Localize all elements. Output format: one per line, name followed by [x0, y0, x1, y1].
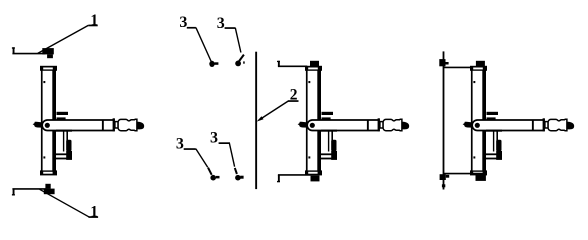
- post top cap (view 1): [40, 66, 57, 71]
- pivot pin (view 1): [45, 123, 50, 128]
- post top cap (view 2): [305, 66, 322, 71]
- screw 3 shank stub (bottom right): [240, 176, 243, 179]
- screw 3 shank stub (bottom left): [216, 176, 220, 179]
- clamp lever (view 1): [33, 122, 43, 128]
- lock shelf upper bar (view 1): [56, 153, 71, 155]
- arm collar lower bar (view 2): [322, 117, 331, 119]
- bottom bracket rail (view 3): [444, 173, 487, 175]
- pivot pin (view 3): [475, 123, 480, 128]
- numeral 1 underline (bottom): [89, 216, 99, 218]
- arm sleeve joint line (view 2): [367, 120, 369, 131]
- turned grip handle (view 2): [383, 119, 402, 131]
- bottom bracket hook (view 1): [13, 189, 15, 196]
- grip end knob (view 3): [567, 122, 574, 130]
- leader line to screw 3 (bottom left): [196, 149, 208, 167]
- lock housing right line (view 1): [66, 131, 68, 152]
- bottom bracket hook tick (view 2): [277, 181, 280, 182]
- swing arm tube (view 2): [307, 120, 379, 131]
- lock foot (view 1): [66, 151, 72, 160]
- post bottom cap (view 2): [305, 170, 322, 175]
- bottom bracket clamp block under cap (view 3): [476, 175, 486, 181]
- post left wall (view 3): [471, 70, 473, 171]
- numeral 3 underline (bottom left): [184, 148, 196, 150]
- screw 3 shank (bottom right): [235, 168, 237, 174]
- arm collar lower bar (view 1): [57, 117, 66, 119]
- wall clamp screw tail (view 3): [442, 184, 445, 187]
- grip neck (view 2): [380, 122, 383, 128]
- lock housing left line (view 2): [328, 131, 329, 152]
- arm collar upper bar (view 1): [57, 112, 69, 115]
- grip end knob (view 2): [402, 122, 409, 130]
- top bracket clamp block (view 1): [42, 48, 54, 54]
- grip neck (view 3): [545, 122, 548, 128]
- post screw hole upper (view 2): [308, 81, 310, 83]
- svg-text:3: 3: [179, 14, 187, 31]
- post right channel bar (view 3): [482, 70, 486, 171]
- svg-text:3: 3: [176, 136, 184, 153]
- screw 3 head (bottom right): [235, 175, 241, 181]
- bottom bracket hook (view 2): [278, 175, 280, 182]
- post screw hole lower (view 2): [308, 156, 310, 158]
- top bracket rail (view 1): [12, 53, 45, 55]
- lock knob (view 1): [66, 140, 71, 151]
- grip neck (view 1): [115, 122, 118, 128]
- numeral 2 underline (wall): [288, 100, 299, 102]
- swing arm tube (view 1): [42, 120, 114, 131]
- screw 3 head (top right): [235, 61, 241, 67]
- bottom bracket clamp block under cap (view 2): [311, 176, 320, 182]
- arm end flange (view 3): [543, 118, 545, 131]
- bottom bracket rail (view 2): [278, 174, 320, 176]
- arm sleeve joint line (view 3): [532, 120, 534, 131]
- numeral 1 underline (top): [88, 25, 97, 27]
- arm end flange (view 2): [378, 118, 380, 131]
- lock shelf lower bar (view 1): [56, 158, 71, 160]
- top bracket clamp block on cap (view 2): [310, 61, 319, 66]
- lock housing top band (view 3): [486, 130, 502, 132]
- lock shelf upper bar (view 2): [321, 153, 336, 155]
- screw 3 tip (top right): [243, 61, 245, 63]
- lock foot (view 2): [331, 151, 337, 160]
- clamp lever (view 3): [463, 122, 473, 128]
- top bracket rail (view 3): [444, 66, 473, 68]
- arm collar upper bar (view 3): [487, 112, 499, 115]
- lock housing left line (view 1): [63, 131, 64, 152]
- svg-text:1: 1: [90, 12, 98, 29]
- turned grip handle (view 3): [548, 119, 567, 131]
- post right channel bar (view 1): [52, 70, 56, 171]
- svg-text:3: 3: [217, 15, 225, 32]
- arrowhead on wall leader: [257, 116, 264, 121]
- leader line to screw 3 (bottom right): [229, 142, 234, 166]
- arm end flange (view 1): [113, 118, 115, 131]
- post top cap (view 3): [470, 66, 487, 71]
- numeral 3 underline (top right): [225, 27, 236, 29]
- bottom bracket rail (view 1): [12, 188, 46, 190]
- svg-text:3: 3: [210, 130, 218, 147]
- arm sleeve joint line (view 1): [102, 120, 104, 131]
- arm collar upper bar (view 2): [322, 112, 334, 115]
- leader line to numeral 1 (bottom): [40, 189, 89, 217]
- numeral 3 underline (bottom right): [219, 142, 230, 144]
- swing arm tube (view 3): [472, 120, 544, 131]
- leader line to wall (numeral 2): [259, 101, 288, 120]
- screw 3 shank stroke (top right): [239, 55, 244, 62]
- lock housing left line (view 3): [493, 131, 494, 152]
- turned grip handle (view 1): [118, 119, 137, 131]
- lock shelf upper bar (view 3): [486, 153, 501, 155]
- post left wall (view 2): [306, 70, 308, 171]
- lock housing right line (view 3): [496, 131, 498, 152]
- screw 3 head (bottom left): [210, 175, 216, 181]
- leader line to numeral 1 (top): [38, 25, 89, 53]
- top bracket hook tick (view 1): [12, 47, 15, 48]
- top bracket hook (view 1): [13, 47, 15, 54]
- post bottom cap (view 3): [470, 170, 487, 175]
- numeral 3 underline (top left): [187, 27, 196, 29]
- wall panel 2: [255, 52, 257, 189]
- lock knob (view 2): [331, 140, 336, 151]
- lock housing right line (view 2): [331, 131, 333, 152]
- leader line to screw 3 (top right): [235, 28, 241, 53]
- top bracket clamp block on cap (view 3): [476, 61, 485, 66]
- lock housing top band (view 2): [321, 130, 337, 132]
- lock knob (view 3): [496, 140, 501, 151]
- bottom bracket hook tick (view 1): [12, 194, 15, 195]
- clamp lever (view 2): [298, 122, 308, 128]
- post right channel bar (view 2): [317, 70, 321, 171]
- arm collar lower bar (view 3): [487, 117, 496, 119]
- screw 3 head (top left): [209, 61, 214, 67]
- lock shelf lower bar (view 2): [321, 158, 336, 160]
- top bracket hook tick (view 2): [277, 61, 280, 62]
- screw 3 shank (bottom left): [208, 168, 212, 175]
- top bracket hook (view 2): [278, 61, 280, 67]
- lock housing top band (view 1): [56, 130, 72, 132]
- screw 3 shank (top left): [214, 62, 218, 65]
- lock foot (view 3): [496, 151, 502, 160]
- bottom bracket clamp block (view 1): [45, 184, 50, 189]
- post screw hole lower (view 3): [473, 156, 475, 158]
- post screw hole upper (view 3): [473, 81, 475, 83]
- post screw hole lower (view 1): [43, 156, 45, 158]
- leader line to screw 3 (top left): [196, 28, 211, 62]
- top bracket wall clamp (view 3): [439, 59, 445, 66]
- bottom bracket wall clamp (view 3): [440, 174, 446, 180]
- wall panel (view 3): [443, 51, 445, 189]
- top bracket rail (view 2): [278, 65, 307, 67]
- pivot pin (view 2): [310, 123, 315, 128]
- lock shelf lower bar (view 3): [486, 158, 501, 160]
- post screw hole upper (view 1): [43, 81, 45, 83]
- post left wall (view 1): [41, 70, 43, 171]
- post bottom cap (view 1): [40, 170, 57, 175]
- grip end knob (view 1): [137, 122, 144, 130]
